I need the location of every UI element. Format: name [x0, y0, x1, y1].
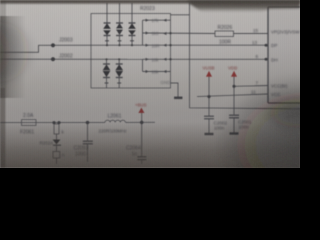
photo noise — [0, 0, 300, 168]
wire VCC to IC pin 11 — [197, 94, 268, 97]
terminal tick bottom col 1 — [105, 82, 109, 84]
VDD supply stem — [233, 77, 235, 115]
wire net J2002 — [0, 58, 143, 60]
junction dot R2024 right — [57, 121, 60, 124]
junction dot DH pin — [265, 58, 268, 61]
net arrows on pin rows — [146, 19, 167, 74]
stub above column 1 — [106, 3, 108, 14]
bracket 2 vertical (pins 10k/15k) — [142, 59, 144, 71]
R2024 pad A — [53, 152, 60, 165]
pin row 10k to IC pin 6 — [143, 58, 269, 60]
ground bar under box GND pin — [174, 97, 183, 100]
+BUS / C2064 branch — [137, 113, 146, 164]
dual diode top row col 3 — [128, 14, 136, 46]
GND pin wire of box — [171, 83, 179, 97]
IC box edges — [267, 7, 269, 103]
fuse F2061 body — [22, 120, 37, 126]
stub above column 3 — [131, 3, 133, 14]
junction dot J2002 — [51, 57, 55, 61]
inductor L2061 coil — [105, 120, 125, 122]
junction dot +BUS — [140, 121, 144, 125]
capacitor C2002 — [204, 116, 214, 134]
vertical riser wire x=189.5 — [190, 1, 301, 109]
+BUS arrow — [138, 108, 144, 114]
screen background — [0, 0, 300, 168]
capacitor C2001 — [229, 115, 239, 133]
pin row 10R to IC pin 13 — [143, 44, 269, 46]
wire net J2003 — [0, 45, 143, 52]
junction dots diode columns on J2002 wire — [105, 58, 107, 60]
VUSB supply stem — [208, 77, 210, 116]
terminal tick col 2 — [118, 40, 122, 42]
diode-array box R2023 — [91, 14, 171, 89]
red supply arrows — [138, 71, 237, 113]
main +BUS bottom wire — [0, 121, 105, 123]
pin row 17k — [143, 19, 171, 21]
R2024 branch: pad k — [54, 123, 59, 140]
junction dot VDD/pin7 — [232, 85, 235, 88]
junction dot J2003 — [51, 43, 55, 47]
dual diode bottom row col 2 — [115, 59, 123, 88]
wire VDD to IC pin 7 — [234, 85, 268, 88]
R2024 diode — [53, 140, 61, 152]
pin row 1k3 to R2026 and IC pin 15 — [143, 32, 216, 35]
wire from box corner to vertical riser — [171, 14, 190, 16]
lighting overlays — [0, 122, 300, 168]
VUSB arrow — [206, 71, 212, 77]
bracket 1 vertical (pins 17k/1k3/10R) — [142, 20, 144, 45]
dual diode top row col 2 — [116, 14, 123, 46]
schematic text labels — [20, 6, 300, 157]
VDD arrow — [231, 71, 237, 77]
dual diode bottom row col 1 — [103, 59, 111, 88]
junction dot R2024 left — [52, 121, 55, 124]
pin row 15k — [143, 71, 171, 73]
terminal tick col 1 — [105, 40, 109, 42]
junction dot DP pin — [265, 44, 268, 47]
resistor R2026 body — [215, 31, 234, 37]
stub above column 2 — [119, 3, 121, 14]
junction dots diode columns on J2003 wire — [106, 44, 108, 46]
terminal tick bottom col 2 — [117, 82, 121, 84]
junction dot C2093 — [86, 121, 90, 125]
red supply labels — [135, 66, 237, 108]
dual diode top row col 1 — [103, 14, 111, 46]
junction dot VUSB/VCC wire — [207, 95, 210, 98]
IC interior shading — [268, 7, 300, 103]
junction dots pin rows on box edge — [169, 32, 171, 34]
capacitor C2093 branch — [83, 123, 93, 163]
terminal tick col 3 — [130, 40, 134, 42]
